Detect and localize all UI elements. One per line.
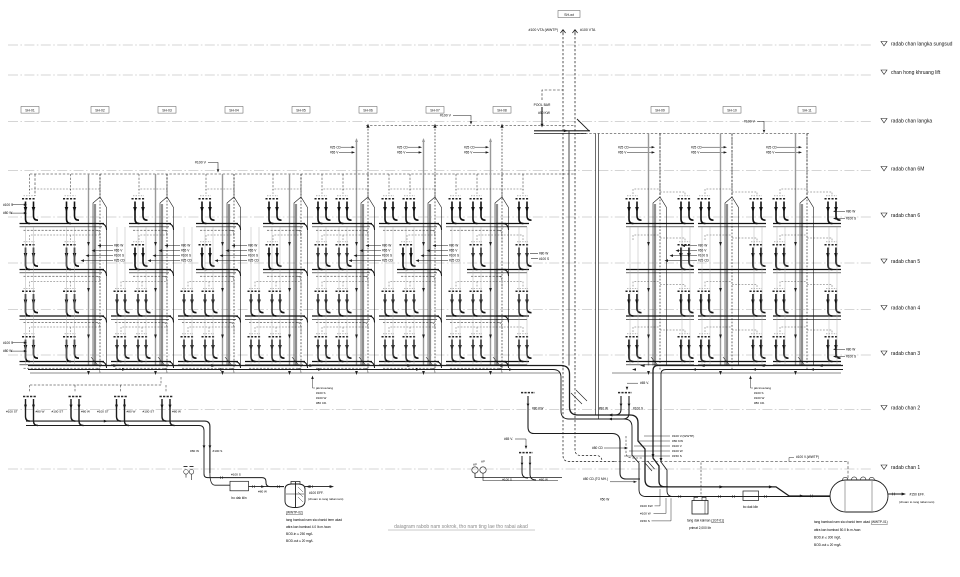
effluent arrow WWTP-01 — [888, 493, 902, 495]
main waste collector left — [28, 370, 830, 497]
vent loop SH-02 f5 — [139, 235, 167, 242]
vent loop SH-06 f5 — [407, 235, 435, 242]
svg-text:radab chan 2: radab chan 2 — [891, 405, 920, 411]
branch piping SH-03 f4 — [178, 316, 241, 328]
pipe size labels floor5 unit 3 — [215, 244, 260, 263]
fixture riser continuation — [459, 227, 461, 366]
svg-text:radab chan 4: radab chan 4 — [891, 305, 920, 311]
svg-text:bo dak klin: bo dak klin — [231, 496, 246, 500]
svg-text:#100 VTA (WWTP): #100 VTA (WWTP) — [529, 28, 559, 32]
fixture cluster SH-01 f4 — [63, 288, 79, 316]
branch piping SH-06 f6 — [379, 224, 442, 236]
fixture cluster SH-11 f6 a — [773, 196, 789, 224]
fixture cluster floor2 — [114, 396, 127, 398]
branch piping SH-03 f6 — [196, 224, 241, 236]
svg-text:attra kan bambad 50.0 lb.m./wa: attra kan bambad 50.0 lb.m./wan — [814, 528, 861, 532]
svg-text:primat 2,000 litr: primat 2,000 litr — [689, 526, 712, 530]
fixture riser continuation — [392, 227, 394, 366]
svg-text:SH-04: SH-04 — [229, 109, 239, 113]
branch piping SH-04 f3 — [245, 362, 308, 374]
fixture cluster SH-04 f6 — [266, 196, 282, 224]
branch piping SH-10 f3 — [698, 362, 766, 365]
label #25 CD / #65 V at x=330 — [330, 145, 342, 154]
branch piping SH-09 f6 — [626, 224, 694, 227]
branch piping SH-02 f6 — [129, 224, 174, 236]
vent header 6M level (left group) — [30, 173, 575, 175]
svg-text:#100 S: #100 S — [213, 449, 223, 453]
vent loop SH-01 f4 — [30, 282, 101, 289]
fixture cluster SH-10 f5 b — [750, 242, 766, 270]
level label radab chan 1 — [881, 465, 920, 471]
level label radab chan 6M — [881, 166, 924, 172]
svg-text:#80 W: #80 W — [3, 349, 12, 353]
svg-text:#100 V: #100 V — [744, 120, 756, 124]
svg-text:#100 S: #100 S — [316, 391, 326, 395]
svg-text:#100 W: #100 W — [316, 396, 327, 400]
label #25 CD / #65 V at x=618 — [618, 145, 630, 154]
branch piping SH-06 f5 — [397, 270, 442, 282]
level label radab chan langka sungsud — [881, 41, 953, 47]
fixture riser continuation — [709, 227, 711, 366]
vent header drop SH-09 — [659, 134, 661, 199]
fixture riser continuation — [451, 227, 453, 366]
vent elbow SH-wt to tank line — [563, 368, 614, 462]
svg-text:#100 V: #100 V — [195, 161, 207, 165]
svg-text:#65 V.: #65 V. — [640, 381, 649, 385]
svg-text:attra kan bambad 4.0 lb.m./wan: attra kan bambad 4.0 lb.m./wan — [286, 525, 331, 529]
vent header drop SH-11 — [806, 134, 808, 199]
riser label box SH-11 — [798, 107, 816, 114]
kitchen drop — [528, 396, 640, 479]
vent riser junction arrow — [366, 124, 369, 128]
fixture riser continuation — [250, 227, 252, 366]
riser stack SH-06 — [422, 126, 442, 376]
svg-text:#25 CD: #25 CD — [766, 145, 778, 149]
vent loop SH-04 f5 — [273, 235, 301, 242]
branch piping SH-04 f4 — [245, 316, 308, 328]
vent loop SH-02 f6 — [139, 189, 167, 196]
vent loop SH-03 f3 — [188, 327, 234, 334]
fixture cluster SH-03 f4 — [181, 288, 197, 316]
svg-text:#80 CD.: #80 CD. — [754, 401, 765, 405]
svg-text:#100 V.(WWTP): #100 V.(WWTP) — [672, 434, 694, 438]
svg-text:#25 CD: #25 CD — [618, 145, 630, 149]
riser stack SH-01 — [87, 174, 106, 375]
svg-text:#65 V: #65 V — [330, 151, 339, 155]
fixture riser continuation — [204, 227, 206, 366]
fixture cluster SH-09 f5 b — [678, 242, 694, 270]
floor level line lift machine room — [8, 74, 872, 76]
branch piping SH-06 f4 — [379, 316, 442, 328]
svg-text:radab chan langka sungsud: radab chan langka sungsud — [891, 41, 953, 47]
vent loop SH-11 f6 — [780, 189, 832, 196]
fixture riser continuation — [413, 227, 415, 366]
svg-text:#80 KW: #80 KW — [672, 439, 683, 443]
main waste collector right — [661, 370, 843, 497]
riser label box SH-03 — [158, 107, 176, 114]
branch piping SH-02 f3 — [111, 362, 174, 374]
fixture cluster SH-06 f6 — [403, 196, 419, 224]
fixture cluster SH-11 f3 b — [825, 334, 841, 362]
bathroom cluster floor2 right of bundle — [618, 392, 632, 394]
svg-text:#100 V: #100 V — [672, 444, 683, 448]
riser label box SH-wt — [558, 11, 580, 18]
branch piping SH-03 f3 — [178, 362, 241, 374]
branch piping SH-02 f4 — [111, 316, 174, 328]
branch piping SH-09 f4 — [626, 316, 694, 319]
fixture riser continuation — [776, 227, 778, 366]
flow arrows on stair horizontals — [608, 414, 612, 417]
svg-text:radab chan 6: radab chan 6 — [891, 213, 920, 219]
fixture cluster SH-06 f4 — [403, 288, 419, 316]
branch piping SH-04 f6 — [263, 224, 308, 236]
svg-text:#80 W: #80 W — [81, 410, 90, 414]
fixture cluster SH-11 f4 b — [825, 288, 841, 316]
vent loop SH-11 f4 — [780, 282, 832, 289]
fixture riser continuation — [701, 227, 703, 366]
fixture riser continuation SH-08 — [518, 227, 520, 366]
svg-text:WP: WP — [473, 463, 477, 466]
branch piping SH-01 f3 — [20, 362, 107, 374]
flow arrow left — [760, 364, 765, 367]
fixture cluster SH-09 f3 b — [678, 334, 694, 362]
vent loop SH-03 f4 — [188, 282, 234, 289]
vent loop SH-06 f3 — [389, 327, 435, 334]
svg-text:jak krua lang: jak krua lang — [753, 386, 771, 390]
svg-text:#100 W: #100 W — [640, 512, 651, 516]
svg-text:#100 S: #100 S — [846, 355, 856, 359]
branch piping SH-10 f4 — [698, 316, 766, 319]
vent loop SH-04 f4 — [255, 282, 301, 289]
riser label box SH-01 — [21, 107, 39, 114]
fixture riser continuation — [137, 227, 139, 366]
branch piping SH-11 f5 — [773, 270, 841, 273]
fixture cluster SH-11 f5 b — [825, 242, 841, 270]
fixture riser continuation — [66, 227, 68, 366]
riser stack SH-03 — [221, 174, 240, 375]
svg-text:#100 ST: #100 ST — [97, 410, 109, 414]
fixture riser continuation — [629, 227, 631, 366]
svg-text:#100 EFF.: #100 EFF. — [309, 491, 324, 495]
flow arrows to tank upper main — [719, 485, 724, 488]
svg-text:#80 W: #80 W — [599, 406, 608, 410]
svg-text:#80 W: #80 W — [36, 410, 45, 414]
level label radab chan 3 — [881, 351, 920, 357]
fixture cluster SH-03 f4 — [202, 288, 218, 316]
inlet arrow from right + effluent — [305, 486, 330, 488]
vent loop SH-11 f5 — [780, 235, 832, 242]
flow arrow left — [818, 364, 823, 367]
branch piping SH-05 f3 — [312, 362, 375, 374]
fixture cluster SH-02 f4 — [135, 288, 151, 316]
level label radab chan 2 — [881, 405, 920, 411]
fixture cluster SH-08 f5 — [516, 242, 532, 270]
fixture riser continuation — [145, 227, 147, 366]
svg-text:#25 CD: #25 CD — [464, 145, 476, 149]
odor trap box — [230, 481, 249, 491]
fixture cluster SH-02 f5 — [132, 242, 148, 270]
svg-text:#80 W: #80 W — [127, 410, 136, 414]
riser stack SH-04 — [288, 174, 307, 375]
svg-text:#100 W: #100 W — [672, 449, 683, 453]
svg-text:#80 KW: #80 KW — [532, 406, 543, 410]
svg-text:SH-02: SH-02 — [95, 109, 105, 113]
vent loop SH-05 f6 — [322, 189, 368, 196]
riser stack SH-02 — [154, 174, 173, 375]
fixture cluster SH-05 f6 — [315, 196, 331, 224]
svg-text:SH-08: SH-08 — [497, 109, 507, 113]
svg-text:SH-03: SH-03 — [162, 109, 172, 113]
fixture cluster SH-07 f3 — [470, 334, 486, 362]
fixture cluster SH-04 f4 — [248, 288, 264, 316]
vent loop SH-09 f3 — [633, 327, 685, 334]
svg-text:#100 KW: #100 KW — [640, 504, 653, 508]
svg-text:tang bambad nam sia chanid ter: tang bambad nam sia chanid term akad — [286, 518, 342, 522]
svg-text:(chuam to rang rabai nam): (chuam to rang rabai nam) — [899, 500, 934, 504]
vent header drop far left — [34, 174, 36, 196]
pipe pool bar kitchen waste drop — [541, 107, 543, 125]
fixture cluster SH-05 f4 — [336, 288, 352, 316]
vent loop SH-02 f4 — [121, 282, 167, 289]
fixture riser continuation — [25, 227, 27, 366]
flow arrow left — [640, 364, 645, 367]
vent drop floor2 — [29, 385, 31, 392]
branch piping SH-09 f5 — [626, 270, 694, 273]
fixture cluster SH-10 f4 a — [698, 288, 714, 316]
svg-text:SH-10: SH-10 — [727, 109, 737, 113]
vent riser floor2 row — [160, 377, 162, 385]
vent riser junction arrow — [433, 124, 436, 128]
fixture cluster floor2 — [69, 396, 82, 398]
riser label box SH-05 — [292, 107, 310, 114]
vent loop SH-08 f3 — [502, 327, 523, 332]
fixture riser continuation — [405, 227, 407, 366]
treatment tank WWTP-02 — [285, 482, 305, 508]
branch piping SH-07 f5 — [467, 270, 509, 282]
vent loop SH-05 f3 — [322, 327, 368, 334]
floor level line floor 6 — [8, 216, 872, 218]
branch piping SH-08 f6 — [496, 224, 529, 227]
svg-text:#100 ST: #100 ST — [6, 410, 18, 414]
vent stack SH-wt pipe 2 — [574, 33, 576, 368]
riser label box SH-02 — [91, 107, 109, 114]
branch piping SH-08 f3 — [496, 362, 529, 365]
branch piping SH-01 f4 — [20, 316, 107, 328]
svg-text:(WWTP-02): (WWTP-02) — [286, 511, 303, 515]
stack id labels right of bundle — [624, 434, 694, 458]
vent header drops — [322, 174, 368, 198]
fixture cluster SH-08 f4 — [516, 288, 532, 316]
floor level line 6M — [8, 170, 872, 172]
branch piping SH-04 f5 — [263, 270, 308, 282]
branch piping SH-01 f6 — [20, 224, 107, 236]
vent loop SH-07 f3 — [456, 327, 502, 334]
branch piping SH-01 f5 — [20, 270, 107, 282]
riser label box SH-09 — [651, 107, 669, 114]
fixture cluster SH-04 f4 — [269, 288, 285, 316]
vent drop floor2 — [74, 385, 76, 392]
collector third line right — [612, 372, 841, 374]
pipe roof horizontal run — [534, 130, 590, 132]
fixture cluster SH-01 f5 — [22, 242, 38, 270]
fixture cluster SH-01 f6 — [63, 196, 79, 224]
fixture cluster SH-06 f6 — [382, 196, 398, 224]
pipe size labels floor5 unit 5 — [349, 244, 394, 263]
vent loop SH-06 f6 — [389, 189, 435, 196]
vent loop SH-04 f3 — [255, 327, 301, 334]
labels #80 W / #100 S SH-08 floor5 — [530, 252, 549, 261]
svg-text:bo dak klin: bo dak klin — [743, 505, 758, 509]
fixture cluster SH-07 f4 — [449, 288, 465, 316]
level label radab chan langka — [881, 118, 932, 124]
svg-text:#150 S: #150 S — [640, 519, 650, 523]
svg-text:#80 W: #80 W — [3, 211, 12, 215]
vent branch pool bar — [542, 90, 563, 100]
fixture cluster SH-06 f4 — [382, 288, 398, 316]
vent loop SH-11 f3 — [780, 327, 832, 334]
vent loop SH-04 f6 — [273, 189, 301, 196]
svg-text:BOD.out ≤ 20 mg/L: BOD.out ≤ 20 mg/L — [286, 539, 313, 543]
flow arrow right — [113, 364, 118, 367]
fixture cluster SH-01 f5 — [63, 242, 79, 270]
fixture cluster SH-09 f6 a — [626, 196, 642, 224]
couplings lower main — [679, 495, 681, 498]
branch piping SH-07 f6 — [446, 224, 509, 236]
svg-text:#80 CD.(TO MH.): #80 CD.(TO MH.) — [583, 477, 608, 481]
45deg join hatches — [645, 461, 655, 471]
fixture cluster SH-10 f4 b — [750, 288, 766, 316]
fixture cluster SH-04 f5 — [266, 242, 282, 270]
fixture cluster SH-10 f6 a — [698, 196, 714, 224]
svg-text:#25 CD: #25 CD — [397, 145, 409, 149]
svg-text:WP: WP — [481, 460, 485, 463]
grease trap GT-01 — [692, 497, 708, 514]
fixture cluster SH-05 f3 — [336, 334, 352, 362]
vent loop SH-08 f6 — [502, 189, 523, 194]
fixture riser continuation — [74, 227, 76, 366]
svg-text:#100 S: #100 S — [846, 217, 856, 221]
vent loop SH-06 f4 — [389, 282, 435, 289]
vent header drops — [456, 174, 502, 198]
fixture riser continuation — [124, 227, 126, 366]
odor trap box 2 — [743, 491, 759, 501]
riser stack SH-11 — [794, 134, 813, 376]
vent header drops — [273, 174, 301, 198]
branch piping SH-10 f5 — [698, 270, 766, 273]
fixture cluster SH-06 f3 — [403, 334, 419, 362]
branch piping SH-07 f3 — [446, 362, 509, 374]
svg-text:#100 S: #100 S — [539, 257, 549, 261]
svg-text:#25 CD: #25 CD — [691, 145, 703, 149]
vent loop SH-01 f6 — [30, 189, 101, 196]
vent loop SH-10 f5 — [705, 235, 757, 242]
vent header drop SH-08 cluster — [522, 174, 524, 190]
fixture cluster SH-02 f6 — [132, 196, 148, 224]
fixture cluster SH-05 f6 — [336, 196, 352, 224]
svg-text:radab chan 1: radab chan 1 — [891, 465, 920, 471]
svg-text:#150 S: #150 S — [672, 454, 682, 458]
WWTP-01 spec text — [814, 520, 888, 547]
vent line #100 V WWTP to tank — [614, 461, 848, 463]
svg-text:#80 W: #80 W — [258, 490, 267, 494]
branch piping SH-06 f3 — [379, 362, 442, 374]
fixture riser continuation — [191, 227, 193, 366]
fixture riser continuation — [212, 227, 214, 366]
fixture cluster SH-07 f6 — [470, 196, 486, 224]
svg-text:daiagram rabob nam sokrok, tho: daiagram rabob nam sokrok, tho nam ting … — [394, 524, 528, 530]
vent loop SH-03 f6 — [206, 189, 234, 196]
vent loop SH-01 f5 — [30, 235, 101, 242]
fixture cluster SH-08 f6 — [516, 196, 532, 224]
discharge line to WWTP-02 — [204, 474, 284, 487]
riser from pool bar down to main — [568, 131, 570, 366]
main sewer collector left — [28, 366, 668, 487]
svg-text:#65 V.: #65 V. — [504, 437, 513, 441]
CD dashed drop — [626, 436, 642, 458]
collector third line left — [30, 372, 560, 374]
flow arrow left — [700, 364, 705, 367]
fixture riser continuation — [317, 227, 319, 366]
vent loop SH-10 f6 — [705, 189, 757, 196]
svg-text:SH-09: SH-09 — [655, 109, 665, 113]
svg-text:radab chan 5: radab chan 5 — [891, 259, 920, 265]
svg-text:SH-11: SH-11 — [802, 109, 811, 113]
svg-text:#80 CD.: #80 CD. — [316, 401, 327, 405]
labels stack to tank — [640, 489, 671, 523]
fixture cluster SH-05 f5 — [315, 242, 331, 270]
svg-text:jak krua lang: jak krua lang — [315, 386, 333, 390]
fixture cluster SH-03 f6 — [199, 196, 215, 224]
fixture cluster SH-05 f5 — [336, 242, 352, 270]
pipe size labels floor5 right group — [665, 244, 710, 263]
pipe size labels floor5 unit 6 — [416, 244, 461, 263]
svg-text:#100 S: #100 S — [231, 472, 241, 476]
svg-text:tang bambad nam sia chanid ter: tang bambad nam sia chanid term akad (WW… — [814, 520, 888, 524]
fixture cluster floor1 center — [519, 452, 533, 454]
riser stack SH-10 — [719, 134, 738, 376]
inlet line to WWTP-01 — [789, 495, 830, 497]
fixture cluster SH-10 f3 a — [698, 334, 714, 362]
vent header roof level (right group) — [577, 133, 810, 135]
vent loop SH-05 f4 — [322, 282, 368, 289]
vent loop SH-10 f3 — [705, 327, 757, 334]
svg-text:BOD.in ≤ 300 mg/L: BOD.in ≤ 300 mg/L — [814, 536, 841, 540]
svg-text:#65 V: #65 V — [766, 151, 775, 155]
svg-text:SH-05: SH-05 — [296, 109, 306, 113]
vent stack SH-wt pipe 1 — [562, 33, 564, 368]
svg-text:#100 S: #100 S — [754, 391, 764, 395]
fixture cluster SH-06 f5 — [400, 242, 416, 270]
stack bundle verticals — [596, 134, 599, 420]
fixture cluster SH-07 f3 — [449, 334, 465, 362]
pumps WP-01/02 left — [184, 470, 189, 475]
fixture riser continuation — [258, 227, 260, 366]
fixture cluster SH-03 f3 — [202, 334, 218, 362]
vent loop SH-08 f5 — [502, 235, 523, 240]
flow arrow right — [309, 364, 314, 367]
svg-text:#100 S: #100 S — [502, 478, 512, 482]
fixture riser continuation SH-08 — [526, 227, 528, 366]
svg-text:#100 W: #100 W — [754, 396, 765, 400]
fixture cluster SH-11 f6 b — [825, 196, 841, 224]
fixture riser continuation — [325, 227, 327, 366]
fixture cluster SH-04 f3 — [248, 334, 264, 362]
svg-text:#150 EFF.: #150 EFF. — [910, 493, 925, 497]
floor level line floor 4 — [8, 309, 872, 311]
fixture cluster SH-05 f4 — [315, 288, 331, 316]
vent header drops — [139, 174, 167, 198]
branch piping SH-05 f4 — [312, 316, 375, 328]
